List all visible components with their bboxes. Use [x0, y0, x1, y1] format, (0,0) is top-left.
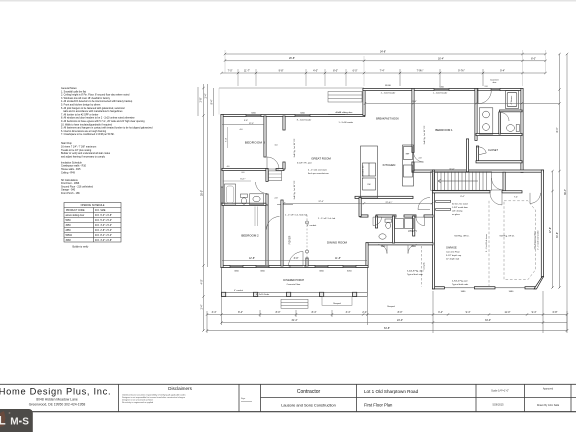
ramp rectangle — [322, 297, 352, 306]
roof overhang left end — [218, 88, 220, 115]
wall hall-foyer west — [281, 200, 283, 266]
svg-text:34'-8": 34'-8" — [380, 50, 386, 53]
wall bath1-closet divider — [476, 133, 522, 135]
staircase — [431, 172, 492, 191]
svg-text:OPENING SCHEDULE: OPENING SCHEDULE — [81, 205, 105, 207]
svg-text:UTILITY: UTILITY — [408, 230, 417, 233]
foyer colonnade dashed — [306, 215, 308, 258]
wall garage south-west segment — [432, 287, 444, 289]
svg-text:2x8 Clg. Jst. 16" OC: 2x8 Clg. Jst. 16" OC — [293, 138, 296, 157]
svg-text:8' Breakfast bar: 8' Breakfast bar — [362, 165, 365, 179]
utility washer dryer — [395, 219, 414, 229]
svg-text:41'-6": 41'-6" — [411, 101, 417, 103]
wall bedroom1 west — [412, 88, 414, 152]
dim ticks — [202, 53, 568, 332]
svg-text:8'-0": 8'-0" — [398, 311, 403, 314]
svg-text:7'-9¼": 7'-9¼" — [417, 69, 424, 72]
svg-text:5/26/2015: 5/26/2015 — [492, 404, 504, 407]
wall bedroom2 north — [222, 203, 266, 205]
wall garage south-mid segment — [474, 287, 495, 289]
wall utility south — [366, 243, 433, 245]
svg-text:Front Porch - 186: Front Porch - 186 — [61, 192, 80, 195]
wall bath2 north — [222, 168, 268, 170]
svg-text:Disclaimers: Disclaimers — [168, 386, 192, 391]
svg-text:6.5x9¼ Flr. joist: 6.5x9¼ Flr. joist — [297, 161, 312, 164]
stair direction arrow — [438, 179, 478, 183]
svg-text:50502: 50502 — [66, 235, 73, 237]
svg-text:Scale 1/4"=1'-0": Scale 1/4"=1'-0" — [491, 390, 509, 393]
svg-text:door: door — [493, 81, 497, 84]
wall utility east — [413, 216, 415, 236]
svg-text:8'-0": 8'-0" — [333, 69, 338, 72]
svg-text:CLOSET: CLOSET — [488, 149, 498, 152]
svg-text:4'-0": 4'-0" — [313, 69, 318, 72]
svg-text:atrium sliding door: atrium sliding door — [66, 214, 85, 217]
wall wc compartment horizontal — [500, 110, 523, 112]
porch posts — [222, 292, 357, 296]
wall halfbath-utility divider — [392, 216, 394, 243]
svg-text:no glass: no glass — [452, 214, 460, 216]
halfbath toilet — [385, 219, 392, 229]
kitchen island counter — [361, 146, 378, 198]
svg-text:BEDROOM 1: BEDROOM 1 — [435, 128, 453, 132]
wall bedroom1 east lower — [466, 139, 468, 172]
svg-text:9'-8": 9'-8" — [279, 69, 284, 72]
svg-text:Contractor: Contractor — [297, 389, 321, 395]
wc door arc — [501, 113, 510, 122]
svg-text:5050: 5050 — [66, 220, 72, 222]
svg-text:22'-0¾": 22'-0¾" — [385, 201, 392, 204]
svg-text:R.O. 3'-0" x 5'-0": R.O. 3'-0" x 5'-0" — [95, 225, 112, 227]
svg-text:27'-8": 27'-8" — [549, 227, 552, 233]
svg-text:7'-4": 7'-4" — [225, 138, 227, 143]
svg-text:8 - 2x10 header: 8 - 2x10 header — [297, 118, 312, 121]
svg-text:BREAKFAST NOOK: BREAKFAST NOOK — [376, 118, 399, 121]
svg-text:24'-0": 24'-0" — [397, 319, 403, 322]
wall bedroom3 east — [264, 116, 266, 157]
svg-text:4 - 1¾x14 LvL beam: 4 - 1¾x14 LvL beam — [308, 169, 327, 172]
back door arc west — [378, 245, 387, 254]
svg-text:Lausore and Sons Construction: Lausore and Sons Construction — [281, 403, 336, 408]
bath1 vanity — [479, 108, 493, 134]
opening schedule table — [64, 203, 121, 243]
dim extension verticals top — [224, 50, 226, 73]
svg-text:2 - 1¾x14 LvL beam: 2 - 1¾x14 LvL beam — [485, 234, 488, 252]
wall bedroom2 east — [266, 205, 268, 266]
svg-text:3'-4": 3'-4" — [212, 311, 217, 314]
svg-text:Concrete Floor: Concrete Floor — [446, 250, 460, 253]
svg-text:Sign.: Sign. — [241, 398, 246, 400]
svg-text:2'-4": 2'-4" — [362, 311, 367, 314]
svg-text:1-3/4" metal door: 1-3/4" metal door — [452, 206, 468, 209]
svg-text:9x8 Fbg. OH Dr.: 9x8 Fbg. OH Dr. — [454, 235, 469, 238]
bedroom3 interior dim — [227, 127, 229, 148]
wall hall-garage south segment4 — [424, 215, 433, 217]
svg-text:7'-4": 7'-4" — [514, 196, 518, 198]
wall garage north-east segment — [502, 191, 522, 193]
svg-text:2'-4": 2'-4" — [200, 304, 203, 309]
dim top third row — [222, 72, 546, 74]
svg-text:34'-0": 34'-0" — [485, 319, 491, 322]
svg-text:37'-0": 37'-0" — [249, 123, 254, 125]
svg-text:Ramped: Ramped — [333, 303, 341, 305]
svg-text:iL: iL — [0, 415, 6, 427]
svg-text:9'-4": 9'-4" — [500, 69, 505, 72]
svg-text:R.O. 5'-0" x 5'-0": R.O. 5'-0" x 5'-0" — [95, 220, 112, 222]
svg-text:34'-8": 34'-8" — [556, 232, 559, 238]
wall exterior east upper — [521, 88, 523, 172]
svg-text:3068: 3068 — [66, 240, 72, 242]
window 3050 south1 — [230, 265, 243, 267]
stair notes text — [61, 142, 111, 158]
wall hall-garage south segment3 — [404, 215, 416, 217]
svg-text:1 - 2x10 header: 1 - 2x10 header — [433, 92, 448, 95]
wall closet west — [476, 146, 478, 162]
svg-text:37'-4": 37'-4" — [318, 201, 324, 203]
bath2 interior dim — [223, 180, 252, 182]
FLOOR PLAN — [198, 50, 568, 333]
bath2 door arc — [256, 182, 268, 194]
wall hall east upper — [283, 116, 285, 130]
wall exterior front-right — [363, 88, 523, 90]
svg-text:11'-7": 11'-7" — [244, 69, 250, 72]
wall hall east mid stub — [283, 162, 285, 169]
svg-text:2'-8": 2'-8" — [200, 97, 203, 102]
svg-text:Greenwood, DE 19950 302-424-19: Greenwood, DE 19950 302-424-1958 — [29, 403, 86, 407]
PLAN ANNOTATIONS — [234, 79, 540, 308]
svg-text:R.O. SIZE: R.O. SIZE — [95, 210, 106, 212]
svg-text:2 - 1¾x9¼ LvL hdr: 2 - 1¾x9¼ LvL hdr — [318, 217, 336, 220]
svg-text:2 - 2x10 header: 2 - 2x10 header — [381, 92, 396, 95]
bedroom3 door arc — [267, 157, 279, 169]
wall garage east — [541, 170, 543, 277]
svg-text:with downspout Door: with downspout Door — [534, 230, 537, 249]
svg-text:1 - 2x10 header: 1 - 2x10 header — [339, 121, 354, 124]
svg-text:28'-0": 28'-0" — [200, 190, 203, 196]
ROOM LABELS — [241, 118, 498, 286]
svg-text:BEDROOM 3: BEDROOM 3 — [245, 140, 265, 144]
svg-text:GREAT ROOM: GREAT ROOM — [311, 157, 331, 161]
svg-text:4 - 2x10 Girder: 4 - 2x10 Girder — [256, 294, 270, 296]
svg-text:Client/contractor assumes resp: Client/contractor assumes responsibility… — [122, 393, 185, 396]
svg-text:3'-4": 3'-4" — [438, 311, 443, 314]
back door arc east — [408, 245, 417, 254]
interior dim above south wall — [222, 260, 367, 262]
svg-text:FOYER: FOYER — [289, 236, 292, 245]
wall hall-garage south segment1 — [360, 215, 368, 217]
wall landing east — [503, 172, 505, 191]
titleblock middle line — [261, 397, 576, 399]
window 5050 great room — [295, 114, 310, 116]
bath2 toilet — [241, 194, 248, 204]
svg-text:DINING ROOM: DINING ROOM — [327, 241, 348, 245]
bath1 door opening — [478, 88, 491, 90]
bedroom1 door arc — [414, 152, 424, 162]
DIMENSION LINES — [198, 50, 567, 333]
window 3050 south3 — [315, 265, 328, 267]
svg-text:8'-0": 8'-0" — [531, 58, 536, 61]
svg-text:flush per manufacturer: flush per manufacturer — [308, 172, 329, 175]
garage side door arc — [530, 193, 541, 204]
svg-text:Concrete Floor: Concrete Floor — [287, 283, 301, 286]
svg-text:9x8 Fbg. OH Dr.: 9x8 Fbg. OH Dr. — [499, 235, 514, 238]
svg-text:Approved: Approved — [543, 388, 554, 391]
beam dashed great room — [284, 202, 432, 204]
svg-text:11'-6": 11'-6" — [449, 168, 454, 170]
bedroom2 closet shelves — [255, 207, 258, 227]
basement door opening — [489, 88, 500, 90]
dim top second — [225, 60, 546, 62]
svg-text:KITCHEN: KITCHEN — [383, 163, 396, 167]
svg-text:COVERED PORCH: COVERED PORCH — [283, 279, 304, 282]
svg-text:11'-0": 11'-0" — [505, 311, 511, 314]
svg-text:8'-4": 8'-4" — [312, 311, 317, 314]
wall garage west — [432, 170, 434, 289]
window 5050 breakfast nook — [434, 88, 449, 90]
svg-text:R.O. 2'-8" x 5'-0": R.O. 2'-8" x 5'-0" — [95, 230, 112, 232]
garage overhead door dashed tracks — [489, 201, 535, 286]
interior dim bedroom3 — [222, 124, 264, 126]
covered porch outline — [222, 268, 368, 297]
svg-text:3'-0": 3'-0" — [294, 257, 299, 260]
svg-text:Drawn By John Safai: Drawn By John Safai — [537, 404, 560, 407]
dim labels left rotated — [200, 93, 214, 309]
svg-text:Ramped: Ramped — [387, 306, 395, 308]
linen closet — [269, 171, 282, 181]
bath1 toilet — [507, 125, 520, 132]
svg-text:SDGD: SDGD — [385, 85, 392, 87]
svg-text:Designer is not responsible fo: Designer is not responsible for trusses … — [122, 396, 185, 399]
wall halfbath west — [375, 216, 377, 228]
svg-text:8'-4": 8'-4" — [556, 127, 559, 132]
svg-text:Builder to verify: Builder to verify — [73, 245, 90, 248]
svg-text:6'-8": 6'-8" — [553, 311, 558, 314]
svg-text:7'-0": 7'-0" — [228, 69, 233, 72]
dim labels right rotated — [549, 127, 567, 238]
svg-text:31'-4": 31'-4" — [291, 319, 297, 322]
dim labels bottom — [212, 257, 558, 330]
insulation schedule text — [61, 161, 87, 174]
svg-text:36'-4": 36'-4" — [564, 189, 567, 195]
closet door arc — [477, 145, 487, 155]
svg-text:9'-4": 9'-4" — [466, 311, 471, 314]
svg-text:R.O. 6'-0" x 6'-8": R.O. 6'-0" x 6'-8" — [95, 215, 112, 217]
window 3050 south4 — [343, 265, 356, 267]
wall garage diagonal corner — [534, 277, 544, 289]
bath2 tub — [225, 184, 236, 205]
svg-text:4" conduit: 4" conduit — [234, 289, 243, 292]
bath1 door arc — [478, 91, 491, 104]
titleblock outer lines — [0, 383, 576, 385]
kitchen east counter — [403, 145, 414, 186]
wall garage south-east segment — [525, 287, 536, 289]
windows front-left wall — [221, 88, 500, 267]
wall house south — [221, 265, 368, 267]
svg-text:9'-4": 9'-4" — [210, 99, 213, 104]
svg-text:8048 Hidden Meadow Lane: 8048 Hidden Meadow Lane — [36, 398, 78, 402]
sheet top edge — [0, 0, 576, 2]
svg-text:4'-0": 4'-0" — [200, 279, 203, 284]
svg-text:3050: 3050 — [66, 225, 72, 227]
TITLE BLOCK — [0, 384, 576, 411]
porch steps — [281, 299, 308, 308]
svg-text:2x8 Clg. Jst. 16" OC: 2x8 Clg. Jst. 16" OC — [423, 125, 426, 144]
svg-text:BEDROOM 2: BEDROOM 2 — [241, 234, 259, 238]
wall hall west piece — [359, 197, 361, 216]
utility door arc — [416, 217, 425, 226]
svg-text:M: M — [10, 416, 18, 427]
svg-text:64'-8": 64'-8" — [384, 327, 390, 330]
bath2 vanity — [250, 194, 264, 205]
window 3050 south2 — [256, 265, 269, 267]
wall stair-garage divider — [432, 191, 490, 193]
disclaimers small text — [122, 393, 185, 404]
svg-text:7. Crawlspace to be conditione: 7. Crawlspace to be conditioned 1 CFM pe… — [61, 133, 115, 136]
wall bath1 west — [475, 88, 477, 140]
svg-text:AGAB sliding door: AGAB sliding door — [336, 111, 353, 114]
svg-text:6'-0": 6'-0" — [353, 69, 358, 72]
wall closet south — [476, 161, 522, 163]
bedroom2 door arc — [267, 217, 280, 230]
halfbath sink — [379, 234, 386, 239]
svg-text:S: S — [22, 416, 29, 427]
garage door opening lines — [444, 287, 525, 289]
svg-text:9'-7¼": 9'-7¼" — [458, 69, 465, 72]
wall house west — [221, 114, 223, 267]
svg-text:DW: DW — [368, 184, 371, 186]
svg-text:2x8 Clg. Jst. 16" OC: 2x8 Clg. Jst. 16" OC — [293, 180, 296, 199]
dim right verticals — [552, 171, 554, 288]
svg-text:2'-4": 2'-4" — [205, 93, 208, 98]
svg-text:No activity is engineered or a: No activity is engineered or applied — [122, 401, 153, 404]
dim extension bottom — [221, 297, 223, 325]
svg-text:self closing: self closing — [452, 211, 463, 213]
bath1 shower — [506, 91, 519, 109]
wall foyer east stub — [306, 258, 308, 266]
roof overhang line front — [219, 87, 364, 89]
stair landing door arc — [492, 178, 504, 190]
wall house west-lower — [366, 243, 368, 268]
svg-text:26'-8": 26'-8" — [289, 57, 295, 60]
titleblock vertical dividers — [118, 384, 120, 411]
svg-text:3-1/2" depth cap: 3-1/2" depth cap — [446, 254, 462, 257]
svg-text:8'-4": 8'-4" — [238, 311, 243, 314]
svg-text:PRODUCT CODE: PRODUCT CODE — [66, 210, 85, 212]
svg-text:Lot 1 Old Sharptown Road: Lot 1 Old Sharptown Road — [364, 389, 419, 394]
wall kitchen south — [355, 196, 413, 198]
svg-text:2850: 2850 — [66, 230, 72, 232]
svg-text:Typical back side: Typical back side — [407, 274, 424, 276]
svg-text:16'-4": 16'-4" — [438, 58, 444, 61]
svg-text:Typical both ends: Typical both ends — [452, 283, 468, 286]
MLS watermark — [0, 409, 33, 432]
sliding door AGAB — [328, 115, 361, 117]
svg-text:4-9x3-0 Ftg. pad: 4-9x3-0 Ftg. pad — [452, 279, 468, 282]
svg-text:60 min. fire rated: 60 min. fire rated — [452, 203, 468, 206]
hall-garage door arc — [418, 198, 430, 210]
svg-text:GARAGE: GARAGE — [446, 247, 457, 250]
svg-text:7'-4": 7'-4" — [380, 69, 385, 72]
svg-text:12'-8": 12'-8" — [249, 257, 255, 260]
wall stair-garage north — [412, 170, 544, 172]
svg-text:4-0: 4-0 — [227, 166, 230, 168]
general notes text — [61, 87, 153, 136]
front door arc — [289, 252, 304, 267]
dim bottom rows — [207, 314, 567, 316]
wall bedroom1 west lower piece — [412, 162, 414, 171]
svg-text:R.O. 8'-4" x 5'-0": R.O. 8'-4" x 5'-0" — [95, 235, 112, 237]
wall step front — [363, 88, 365, 115]
svg-text:Ceiling - R49: Ceiling - R49 — [61, 171, 75, 174]
wall exterior front-left — [221, 114, 365, 116]
svg-text:sidewalk: sidewalk — [424, 262, 426, 269]
garage entry stub walls — [436, 201, 451, 211]
svg-text:R.O. 3'-0" x 6'-8": R.O. 3'-0" x 6'-8" — [95, 240, 112, 242]
svg-text:4" conduit: 4" conduit — [307, 224, 317, 227]
svg-text:First Floor Plan: First Floor Plan — [364, 403, 393, 408]
svg-text:Home Design Plus, Inc.: Home Design Plus, Inc. — [0, 387, 111, 397]
svg-text:and adjust framing if necessar: and adjust framing if necessary to compl… — [61, 155, 106, 158]
svg-text:3-0x6-8 Fbg. door: 3-0x6-8 Fbg. door — [407, 269, 424, 272]
svg-text:2 - 1¾x14 LvL header: 2 - 1¾x14 LvL header — [537, 230, 540, 250]
svg-text:4' Shower: 4' Shower — [511, 95, 513, 104]
LEFT NOTES COLUMN — [61, 87, 153, 195]
svg-text:Designer is not a licensed arc: Designer is not a licensed architect — [122, 399, 153, 402]
window 5050 bedroom3 — [246, 114, 261, 116]
garage fire door arc — [490, 193, 502, 205]
dim top overall — [225, 53, 546, 55]
front door opening — [290, 265, 305, 267]
window bath2 west wall — [221, 187, 223, 203]
hall header line — [277, 203, 293, 205]
wall hall-garage south segment2 — [376, 215, 396, 217]
svg-text:8'-0": 8'-0" — [276, 311, 281, 314]
sf calculations text — [61, 179, 94, 195]
wall wc compartment vertical — [499, 112, 501, 134]
svg-text:9'-4": 9'-4" — [532, 311, 537, 314]
svg-text:12" depth slab: 12" depth slab — [446, 258, 460, 261]
svg-text:2 - 1¾x9¼ LvL flush hdr: 2 - 1¾x9¼ LvL flush hdr — [285, 214, 308, 217]
halfbath door arc — [373, 217, 382, 226]
deck steps at sliding door — [328, 92, 362, 103]
breakfast nook dim line — [365, 103, 560, 105]
svg-text:8'-4": 8'-4" — [460, 196, 464, 198]
svg-text:3'-4": 3'-4" — [346, 311, 351, 314]
dim labels top — [228, 50, 536, 72]
wall bath2 east — [266, 168, 268, 181]
sidewalk dashed — [421, 246, 423, 287]
svg-text:9'-6": 9'-6" — [244, 120, 248, 122]
svg-text:6-0: 6-0 — [242, 172, 245, 174]
svg-text:11'-8": 11'-8" — [335, 257, 341, 260]
wall bath2 north east piece — [276, 168, 284, 170]
dim left vertical — [203, 84, 205, 331]
